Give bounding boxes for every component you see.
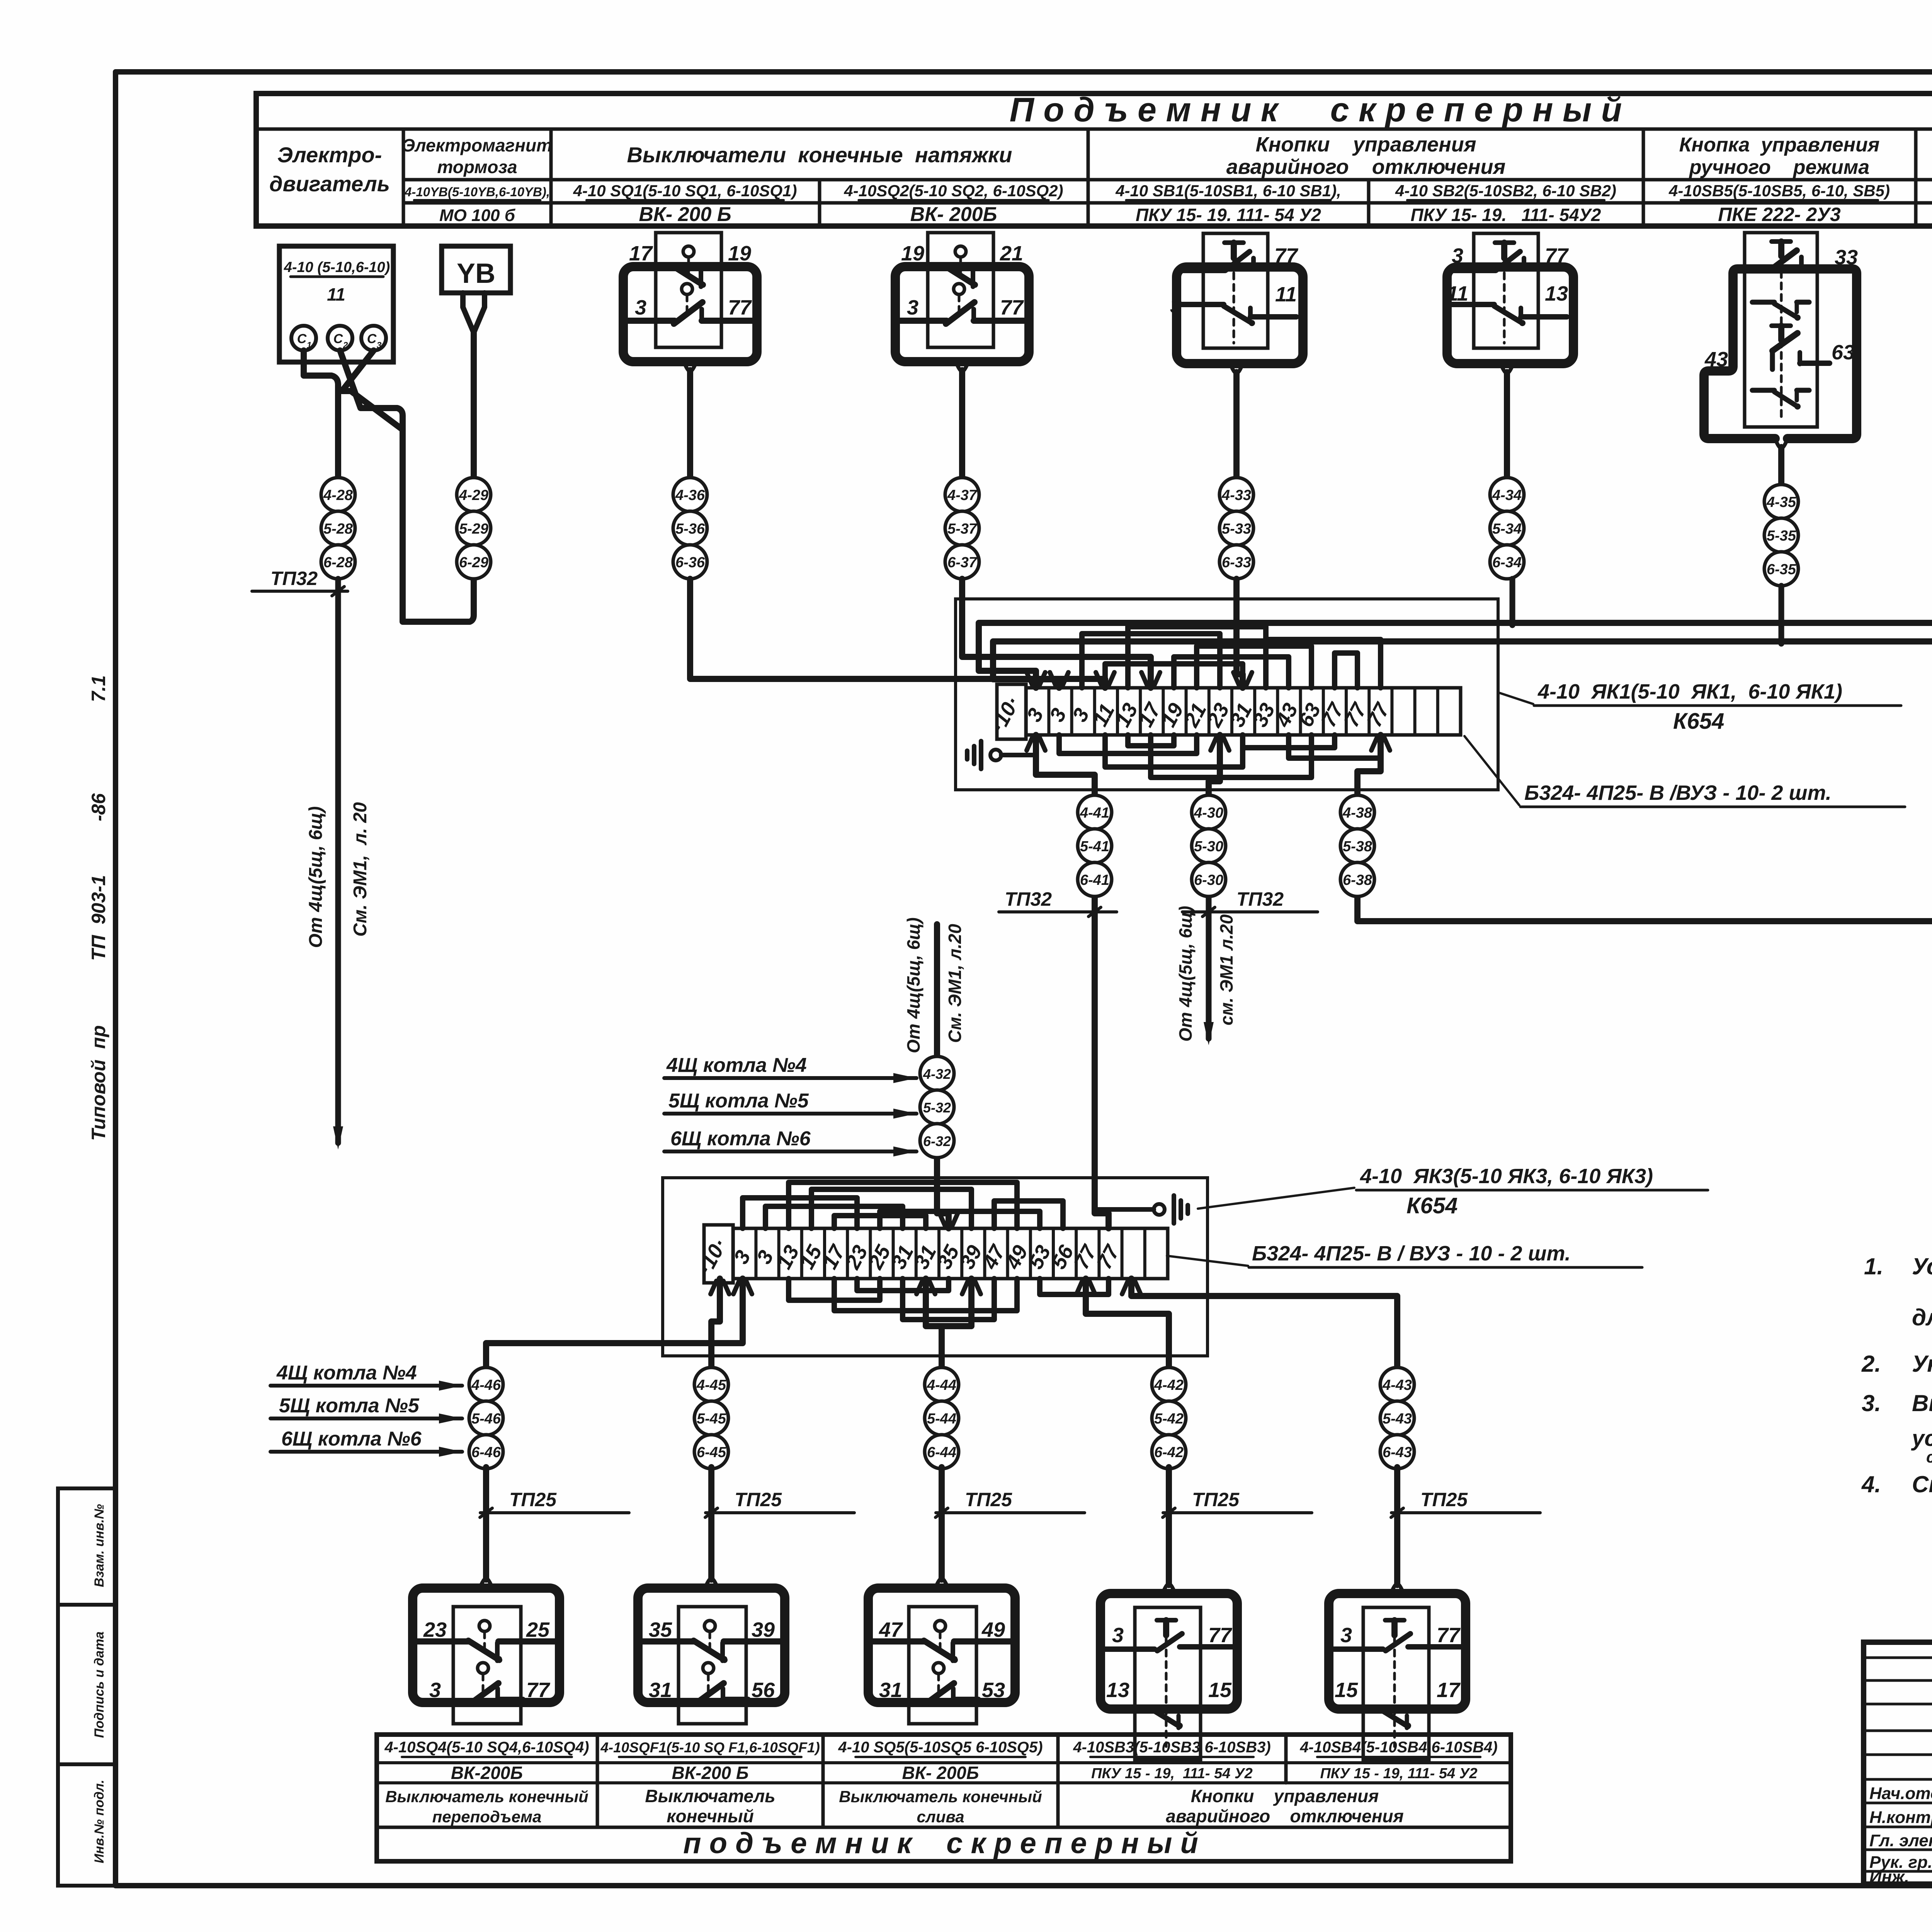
- cable marker ТП25 at x=3025: [1163, 1489, 1312, 1517]
- table designation row: [404, 182, 1932, 200]
- svg-text:6-30: 6-30: [1194, 872, 1223, 888]
- svg-text:5-32: 5-32: [923, 1100, 951, 1116]
- wire 4-30 to panel 4Щ (down arrow): [1204, 898, 1214, 1045]
- cable marker ТП32 on motor wire: [252, 568, 348, 596]
- wire labels 4-29 5-29 6-29: [457, 478, 491, 579]
- cable marker ТП25 at x=2437: [935, 1489, 1085, 1517]
- wire labels 4-32 5-32 6-32: [920, 1056, 954, 1158]
- wire ЯК3 to 4-43 output: [1122, 1279, 1397, 1367]
- svg-text:МО 100 б: МО 100 б: [439, 206, 516, 225]
- svg-text:5-46: 5-46: [471, 1411, 501, 1427]
- notes 1-4: [1861, 1253, 1932, 1497]
- electromagnetic brake YB symbol: [442, 246, 510, 333]
- svg-text:ТП32: ТП32: [1236, 888, 1284, 910]
- label Б324-4П25-В/ВУЗ-10-2 шт. for ЯК1: [1464, 736, 1905, 807]
- svg-text:п о д ъ е м н и к: п о д ъ е м н и к: [683, 1827, 913, 1860]
- wire bus2 from ЯК1 to ЯК2 (lower): [993, 641, 1932, 688]
- jumper loops below ЯК1: [1059, 735, 1381, 777]
- svg-text:слива: слива: [917, 1808, 964, 1826]
- svg-text:63: 63: [1832, 341, 1855, 364]
- svg-text:4-10SB3(5-10SB3 6-10SB3): 4-10SB3(5-10SB3 6-10SB3): [1073, 1739, 1270, 1756]
- push button SB1: [1170, 233, 1303, 478]
- svg-text:См. ЭМ1, л. 20: См. ЭМ1, л. 20: [350, 802, 371, 937]
- svg-text:15: 15: [1208, 1679, 1232, 1702]
- svg-text:4-10 (5-10,6-10): 4-10 (5-10,6-10): [284, 259, 390, 276]
- cable marker ТП32 at 4-41 wire: [999, 888, 1117, 917]
- svg-text:От 4щ(5щ, 6щ): От 4щ(5щ, 6щ): [903, 917, 923, 1053]
- svg-text:ТП25: ТП25: [965, 1489, 1012, 1510]
- svg-text:ВК- 200Б: ВК- 200Б: [910, 203, 997, 226]
- svg-text:4-46: 4-46: [471, 1377, 501, 1393]
- svg-text:ручного режима: ручного режима: [1689, 156, 1869, 179]
- svg-text:От 4щ(5щ, 6щ): От 4щ(5щ, 6щ): [306, 806, 326, 948]
- svg-text:C: C: [367, 332, 377, 346]
- svg-text:5-37: 5-37: [947, 521, 978, 537]
- svg-text:тормоза: тормоза: [437, 157, 517, 177]
- wire ЯК3 to 4-44 output: [917, 1279, 981, 1367]
- svg-text:ТП32: ТП32: [270, 568, 318, 589]
- wire SQ1 to ЯК1 cell 11: [690, 579, 1114, 688]
- svg-text:15: 15: [1335, 1679, 1358, 1702]
- svg-text:17: 17: [1437, 1679, 1461, 1702]
- svg-text:4-10 ЯК1(5-10 ЯК1, 6-10 ЯК1: 4-10 ЯК1(5-10 ЯК1, 6-10 ЯК1): [1537, 680, 1842, 703]
- svg-text:Кнопка управления: Кнопка управления: [1679, 134, 1880, 156]
- cable marker ТП25 at x=3616: [1391, 1489, 1540, 1517]
- jumper loops below ЯК3: [789, 1279, 1109, 1320]
- svg-text:11: 11: [1447, 282, 1468, 305]
- svg-text:5-42: 5-42: [1154, 1411, 1184, 1427]
- svg-text:6Щ котла №6: 6Щ котла №6: [670, 1128, 811, 1150]
- ground at ЯК1: [967, 735, 1045, 769]
- svg-text:4Щ котла №4: 4Щ котла №4: [666, 1054, 807, 1077]
- svg-text:YB: YB: [457, 258, 495, 289]
- svg-text:17: 17: [629, 242, 653, 265]
- svg-text:6-42: 6-42: [1154, 1444, 1184, 1461]
- limit switch SQ5: [868, 1467, 1015, 1724]
- svg-text:4-10SQ4(5-10 SQ4,6-10SQ4): 4-10SQ4(5-10 SQ4,6-10SQ4): [384, 1739, 589, 1756]
- svg-text:Выключатель конечный: Выключатель конечный: [385, 1787, 588, 1806]
- push button SB4: [1329, 1467, 1466, 1760]
- svg-text:11: 11: [327, 284, 345, 304]
- svg-text:4-36: 4-36: [675, 487, 705, 503]
- svg-text:56: 56: [752, 1679, 775, 1702]
- svg-text:5Щ котла №5: 5Щ котла №5: [279, 1395, 420, 1417]
- svg-text:25: 25: [526, 1618, 550, 1641]
- svg-text:2.: 2.: [1861, 1351, 1881, 1377]
- svg-text:П о д ъ е м н и к: П о д ъ е м н и к: [1010, 90, 1280, 129]
- svg-text:Н.контр: Н.контр: [1869, 1808, 1932, 1827]
- svg-text:Нач.отд: Нач.отд: [1869, 1784, 1932, 1803]
- svg-text:4-35: 4-35: [1766, 494, 1796, 510]
- svg-text:31: 31: [879, 1679, 902, 1702]
- svg-text:Указания по привязке см.: Указания по привязке см. ЭМ1 л. 20.: [1912, 1351, 1932, 1377]
- wire ЯК3 to 4-42 output: [1077, 1279, 1169, 1367]
- svg-text:6-28: 6-28: [323, 554, 353, 571]
- svg-text:13: 13: [1106, 1679, 1129, 1702]
- wire SB5 to bus2: [1779, 586, 1784, 644]
- svg-text:23: 23: [423, 1618, 447, 1641]
- svg-text:Б324- 4П25- В /ВУЗ - 10- 2 шт.: Б324- 4П25- В /ВУЗ - 10- 2 шт.: [1524, 781, 1832, 804]
- svg-text:ПКЕ 222- 2У3: ПКЕ 222- 2У3: [1718, 204, 1841, 225]
- boiler feed arrows at 4-46: [270, 1362, 462, 1457]
- svg-text:5-28: 5-28: [323, 521, 353, 537]
- rotated note От 4щ(5щ,6щ) at ЯК3 input: [903, 917, 923, 1053]
- svg-text:31: 31: [649, 1679, 672, 1702]
- svg-text:C: C: [333, 332, 343, 346]
- svg-text:53: 53: [982, 1679, 1005, 1702]
- motor М terminal box 4-10(5-10,6-10) 11: [279, 246, 393, 362]
- svg-text:аварийного отключения: аварийного отключения: [1166, 1806, 1403, 1826]
- svg-text:4-10 SQ1(5-10 SQ1, 6-10SQ1): 4-10 SQ1(5-10 SQ1, 6-10SQ1): [573, 182, 797, 200]
- svg-text:Кнопки управления: Кнопки управления: [1255, 133, 1476, 156]
- svg-text:4-42: 4-42: [1154, 1377, 1184, 1393]
- push button SB3: [1100, 1467, 1237, 1760]
- svg-text:4-10 SB2(5-10SB2, 6-10 SB2): 4-10 SB2(5-10SB2, 6-10 SB2): [1395, 182, 1616, 200]
- wire labels 4-34 5-34 6-34: [1490, 478, 1524, 579]
- svg-text:Кнопки управления: Кнопки управления: [1191, 1786, 1379, 1806]
- svg-text:От 4щ(5щ, 6щ): От 4щ(5щ, 6щ): [1175, 906, 1196, 1041]
- svg-text:13: 13: [1545, 282, 1568, 305]
- wire ЯК1 to 4-30 output: [1209, 735, 1229, 795]
- svg-text:4-28: 4-28: [323, 487, 353, 503]
- svg-text:6-32: 6-32: [923, 1133, 951, 1149]
- wire SQ2 to ЯК1 cell 17: [962, 579, 1160, 688]
- svg-text:33: 33: [1835, 246, 1858, 269]
- wire labels 4-37 5-37 6-37: [945, 478, 979, 579]
- svg-text:4-34: 4-34: [1492, 487, 1522, 503]
- wire labels 4-35 5-35 6-35: [1764, 485, 1798, 586]
- svg-text:ТП32: ТП32: [1005, 888, 1052, 910]
- wire labels 4-36 5-36 6-36: [673, 478, 707, 579]
- svg-text:ВК- 200Б: ВК- 200Б: [902, 1763, 979, 1783]
- svg-text:77: 77: [1000, 296, 1024, 319]
- svg-text:6-41: 6-41: [1080, 872, 1109, 888]
- wire SB2 to bus1: [1510, 579, 1515, 625]
- bottom table grid: [377, 1735, 1511, 1861]
- svg-text:переподъема: переподъема: [432, 1808, 542, 1826]
- svg-text:ПКУ 15 - 19, 111- 54 У2: ПКУ 15 - 19, 111- 54 У2: [1091, 1765, 1253, 1782]
- svg-text:3: 3: [429, 1679, 441, 1702]
- limit switch SQ2: [895, 233, 1029, 478]
- svg-text:4-29: 4-29: [459, 487, 488, 503]
- svg-text:4-37: 4-37: [947, 487, 978, 503]
- svg-text:3: 3: [377, 340, 382, 350]
- svg-text:Спецификацию на трубы с: Спецификацию на трубы см. ЭМ1 л. 13: [1912, 1471, 1932, 1497]
- svg-text:4.: 4.: [1861, 1471, 1881, 1497]
- svg-text:для справок см. ЭМ1 л.: для справок см. ЭМ1 л. 20.: [1912, 1304, 1932, 1330]
- wire labels 4-30 5-30 6-30: [1192, 794, 1226, 896]
- svg-text:6-33: 6-33: [1222, 554, 1251, 571]
- svg-text:6-34: 6-34: [1492, 554, 1522, 571]
- rotated note См. ЭМ1, л. 20 at motor wire: [350, 802, 371, 937]
- svg-text:Выключатель: Выключатель: [645, 1786, 775, 1806]
- wire SB1 to ЯК1 cell 31: [1233, 579, 1252, 688]
- svg-text:5-36: 5-36: [675, 521, 705, 537]
- svg-text:Взам. инв.№: Взам. инв.№: [92, 1504, 107, 1587]
- svg-text:Электро-: Электро-: [277, 143, 382, 167]
- svg-text:3.: 3.: [1862, 1390, 1881, 1416]
- svg-text:39: 39: [752, 1618, 775, 1641]
- svg-text:4-10 SQ5(5-10SQ5 6-10SQ5): 4-10 SQ5(5-10SQ5 6-10SQ5): [838, 1739, 1043, 1756]
- svg-text:Б324- 4П25- В / ВУЗ - 10 - 2 ш: Б324- 4П25- В / ВУЗ - 10 - 2 шт.: [1252, 1242, 1571, 1265]
- wire labels 4-45 5-45 6-45: [694, 1367, 728, 1469]
- svg-text:ВК- 200 Б: ВК- 200 Б: [639, 203, 731, 226]
- svg-text:Инж.: Инж.: [1869, 1867, 1909, 1886]
- svg-text:6-44: 6-44: [927, 1444, 956, 1461]
- svg-text:ПКУ 15- 19. 111- 54У2: ПКУ 15- 19. 111- 54У2: [1411, 205, 1601, 225]
- svg-text:4-43: 4-43: [1382, 1377, 1412, 1393]
- svg-text:77: 77: [1208, 1624, 1233, 1647]
- wire YB down to label circles: [471, 333, 477, 478]
- wire motor feeder to panel 4Щ (down arrow): [333, 579, 343, 1150]
- svg-text:6-38: 6-38: [1343, 872, 1372, 888]
- svg-text:2: 2: [343, 340, 348, 350]
- svg-text:ПКУ 15- 19. 111- 54 У2: ПКУ 15- 19. 111- 54 У2: [1136, 205, 1321, 225]
- svg-text:4-33: 4-33: [1221, 487, 1251, 503]
- svg-text:Условные обозначения , прим: Условные обозначения , примечания и черт…: [1912, 1253, 1932, 1279]
- svg-text:Выключатель конечный: Выключатель конечный: [839, 1787, 1042, 1806]
- svg-text:6-29: 6-29: [459, 554, 488, 571]
- svg-text:Подпись и дата: Подпись и дата: [92, 1631, 107, 1738]
- svg-text:аварийного отключения: аварийного отключения: [1226, 155, 1506, 179]
- svg-text:5-45: 5-45: [697, 1411, 726, 1427]
- svg-text:4-30: 4-30: [1194, 805, 1223, 821]
- svg-text:ПКУ 15 - 19, 111- 54 У2: ПКУ 15 - 19, 111- 54 У2: [1320, 1765, 1477, 1782]
- rotated note см. ЭМ1 л.20 at 4-30 wire: [1216, 914, 1236, 1026]
- title block grid: [1864, 1642, 1932, 1884]
- label 4-10 ЯК3(5-10 ЯК3, 6-10 ЯК3) К654: [1198, 1165, 1708, 1218]
- svg-text:конечный: конечный: [667, 1806, 754, 1826]
- rotated note Cм. ЭМ1, л. 20 at ЯК3 input: [945, 924, 965, 1043]
- svg-text:6Щ котла №6: 6Щ котла №6: [281, 1428, 422, 1450]
- wire ЯК1 to 4-41 output: [1027, 735, 1095, 795]
- svg-text:11: 11: [1275, 283, 1297, 306]
- svg-text:К654: К654: [1406, 1193, 1458, 1218]
- svg-text:5-43: 5-43: [1383, 1411, 1412, 1427]
- svg-text:4-32: 4-32: [923, 1066, 951, 1082]
- wire labels 4-44 5-44 6-44: [925, 1367, 959, 1469]
- svg-text:ТП25: ТП25: [509, 1489, 557, 1510]
- wire labels 4-38 5-38 6-38: [1340, 794, 1374, 896]
- svg-text:6-43: 6-43: [1383, 1444, 1412, 1461]
- wire motor C1 C2 C3 to feeders: [304, 350, 474, 622]
- svg-text:ВК-200Б: ВК-200Б: [451, 1763, 523, 1783]
- svg-text:77: 77: [526, 1679, 551, 1702]
- wire bus1 from ЯК1 to ЯК2 (upper): [979, 623, 1932, 688]
- svg-text:77: 77: [1545, 244, 1569, 267]
- label 4-10 ЯК1(5-10 ЯК1, 6-10 ЯК1) К654: [1498, 680, 1901, 734]
- svg-text:77: 77: [1274, 244, 1299, 267]
- left stamp column boxes: [58, 1488, 116, 1886]
- svg-text:47: 47: [879, 1618, 903, 1641]
- rotated note От 4щ(5щ,6щ) at motor wire: [306, 806, 326, 948]
- svg-text:3: 3: [1112, 1624, 1124, 1647]
- svg-text:49: 49: [981, 1618, 1005, 1641]
- svg-text:4-38: 4-38: [1342, 805, 1372, 821]
- wire labels 4-43 5-43 6-43: [1380, 1367, 1414, 1469]
- svg-text:5-44: 5-44: [927, 1411, 956, 1427]
- svg-text:77: 77: [1437, 1624, 1461, 1647]
- svg-text:3: 3: [1170, 294, 1182, 318]
- wire ЯК1 to 4-38 output: [1357, 735, 1390, 795]
- limit switch SQ1: [623, 233, 757, 478]
- bottom table name row: [385, 1786, 1404, 1826]
- wire labels 4-28 5-28 6-28: [321, 478, 355, 579]
- boiler feed arrows at 4-32: [664, 1054, 917, 1156]
- table type row: [439, 203, 1932, 226]
- svg-text:4-45: 4-45: [696, 1377, 726, 1393]
- left margin rotated text: Типовой пр ТП 903-1 -86 7.1: [88, 675, 109, 1141]
- svg-text:6-45: 6-45: [697, 1444, 726, 1461]
- svg-text:см. ЭМ1 л.20: см. ЭМ1 л.20: [1216, 914, 1236, 1026]
- svg-text:5-33: 5-33: [1222, 521, 1251, 537]
- svg-text:5-34: 5-34: [1492, 521, 1522, 537]
- svg-text:4-10SQF1(5-10 SQ F1,6-10SQF1): 4-10SQF1(5-10 SQ F1,6-10SQF1): [600, 1740, 820, 1755]
- svg-text:4Щ котла №4: 4Щ котла №4: [276, 1362, 417, 1384]
- svg-text:5-41: 5-41: [1080, 838, 1109, 855]
- wire 4-38 to ЯК2 lower bundle: [1357, 731, 1932, 921]
- svg-text:Выключатели конечные натяжки: Выключатели конечные натяжки: [627, 143, 1012, 167]
- svg-text:Гл. элек.: Гл. элек.: [1869, 1831, 1932, 1850]
- svg-text:5Щ котла №5: 5Щ котла №5: [668, 1090, 809, 1112]
- svg-text:К654: К654: [1673, 709, 1724, 734]
- svg-text:4-10SB4(5-10SB4,6-10SB4): 4-10SB4(5-10SB4,6-10SB4): [1299, 1739, 1497, 1756]
- svg-text:5-38: 5-38: [1343, 838, 1372, 855]
- wire ЯК3 to 4-46 output: [486, 1279, 752, 1367]
- wire От 4щ input to ЯК3: [937, 924, 958, 1228]
- table title: Подъемник скреперный: [1010, 90, 1622, 129]
- cable marker ТП25 at x=1841: [705, 1489, 854, 1517]
- svg-text:4-10SB5(5-10SB5, 6-10, SB5): 4-10SB5(5-10SB5, 6-10, SB5): [1668, 182, 1890, 200]
- svg-text:3: 3: [1452, 244, 1463, 267]
- svg-text:4-10 SB1(5-10SB1, 6-10 SB1),: 4-10 SB1(5-10SB1, 6-10 SB1),: [1115, 182, 1341, 200]
- svg-text:19: 19: [901, 242, 924, 265]
- ground at ЯК3: [1097, 1196, 1188, 1223]
- jumper loops above ЯК3: [743, 1182, 1063, 1228]
- svg-text:с к р е п е р н ы й: с к р е п е р н ы й: [946, 1827, 1198, 1860]
- svg-text:Электромагнит: Электромагнит: [402, 135, 552, 155]
- svg-text:6-46: 6-46: [471, 1444, 501, 1461]
- wire labels 4-42 5-42 6-42: [1152, 1367, 1186, 1469]
- wire labels 4-46 5-46 6-46: [469, 1367, 503, 1469]
- svg-text:5-29: 5-29: [459, 521, 488, 537]
- svg-text:C: C: [297, 332, 307, 346]
- svg-text:77: 77: [728, 296, 752, 319]
- svg-text:Cм. ЭМ1, л.20: Cм. ЭМ1, л.20: [945, 924, 965, 1043]
- svg-text:1: 1: [307, 340, 312, 350]
- terminal box ЯК1 enclosure: [956, 599, 1498, 790]
- svg-text:см . Ал . 2,1 ; 2,2 .: см . Ал . 2,1 ; 2,2 .: [1926, 1448, 1932, 1466]
- svg-text:19: 19: [728, 242, 751, 265]
- svg-text:4-10YB(5-10YB,6-10YB),: 4-10YB(5-10YB,6-10YB),: [404, 185, 550, 199]
- svg-text:3: 3: [907, 296, 918, 319]
- push button SB2: [1447, 233, 1573, 478]
- svg-text:ТП25: ТП25: [735, 1489, 782, 1510]
- svg-text:4-10SQ2(5-10 SQ2, 6-10SQ2): 4-10SQ2(5-10 SQ2, 6-10SQ2): [844, 182, 1063, 200]
- bottom table type row: [451, 1763, 1478, 1783]
- svg-text:4-10 ЯК3(5-10 ЯК3, 6-10 ЯК3): 4-10 ЯК3(5-10 ЯК3, 6-10 ЯК3): [1360, 1165, 1653, 1188]
- table grid: [256, 94, 1932, 226]
- rotated note От 4щ(5щ,6щ) at 4-30 wire: [1175, 906, 1196, 1041]
- limit switch SQ4: [413, 1467, 560, 1724]
- svg-text:с к р е п е р н ы й: с к р е п е р н ы й: [1330, 90, 1622, 129]
- wire 4-41 down to ЯК3: [1095, 898, 1109, 1228]
- jumper loops above ЯК1: [1082, 627, 1381, 688]
- svg-text:5-30: 5-30: [1194, 838, 1223, 855]
- svg-text:4-41: 4-41: [1080, 805, 1109, 821]
- double push button SB5: [1704, 233, 1858, 485]
- bottom table designation row: [384, 1739, 1497, 1757]
- terminal strip ЯК1 cells: [986, 684, 1461, 739]
- label Б324-4П25-В/ВУЗ-10-2 шт. for ЯК3: [1167, 1242, 1642, 1267]
- cable marker ТП32 at 4-30 wire: [1182, 888, 1318, 917]
- svg-text:Типовой пр ТП 903: Типовой пр ТП 903-1 -86 7.1: [88, 675, 109, 1141]
- title block signatures: [1869, 1783, 1932, 1886]
- wire ЯК3 to 4-45 output: [711, 1279, 729, 1367]
- bottom table title подъемник скреперный: [683, 1827, 1198, 1860]
- svg-text:ТП25: ТП25: [1420, 1489, 1468, 1510]
- svg-text:43: 43: [1704, 348, 1728, 371]
- terminal strip ЯК3 cells: [694, 1225, 1168, 1283]
- wire labels 4-41 5-41 6-41: [1078, 794, 1112, 896]
- svg-text:21: 21: [1000, 242, 1023, 265]
- svg-text:6-37: 6-37: [947, 554, 978, 571]
- svg-text:ТП25: ТП25: [1192, 1489, 1240, 1510]
- svg-text:1.: 1.: [1864, 1253, 1883, 1279]
- limit switch SQF1: [638, 1467, 785, 1724]
- cable marker ТП25 at x=1258: [480, 1489, 629, 1517]
- svg-text:ВК-200 Б: ВК-200 Б: [672, 1763, 749, 1783]
- svg-text:3: 3: [1340, 1624, 1352, 1647]
- svg-text:35: 35: [649, 1618, 672, 1641]
- svg-text:4-44: 4-44: [927, 1377, 956, 1393]
- svg-text:устанавливаются в тепломех: устанавливаются в тепломеханической част…: [1911, 1426, 1932, 1451]
- svg-text:3: 3: [635, 296, 646, 319]
- svg-text:Выключатели конечные заказ: Выключатели конечные заказываются и: [1912, 1390, 1932, 1416]
- svg-text:двигатель: двигатель: [269, 172, 390, 196]
- svg-text:Инв.№ подл.: Инв.№ подл.: [92, 1780, 107, 1864]
- table column headers: [269, 133, 1932, 196]
- wire labels 4-33 5-33 6-33: [1219, 478, 1253, 579]
- terminal box ЯК3 enclosure: [663, 1178, 1207, 1356]
- svg-text:6-36: 6-36: [675, 554, 705, 571]
- svg-text:6-35: 6-35: [1767, 561, 1796, 578]
- svg-text:5-35: 5-35: [1767, 528, 1796, 544]
